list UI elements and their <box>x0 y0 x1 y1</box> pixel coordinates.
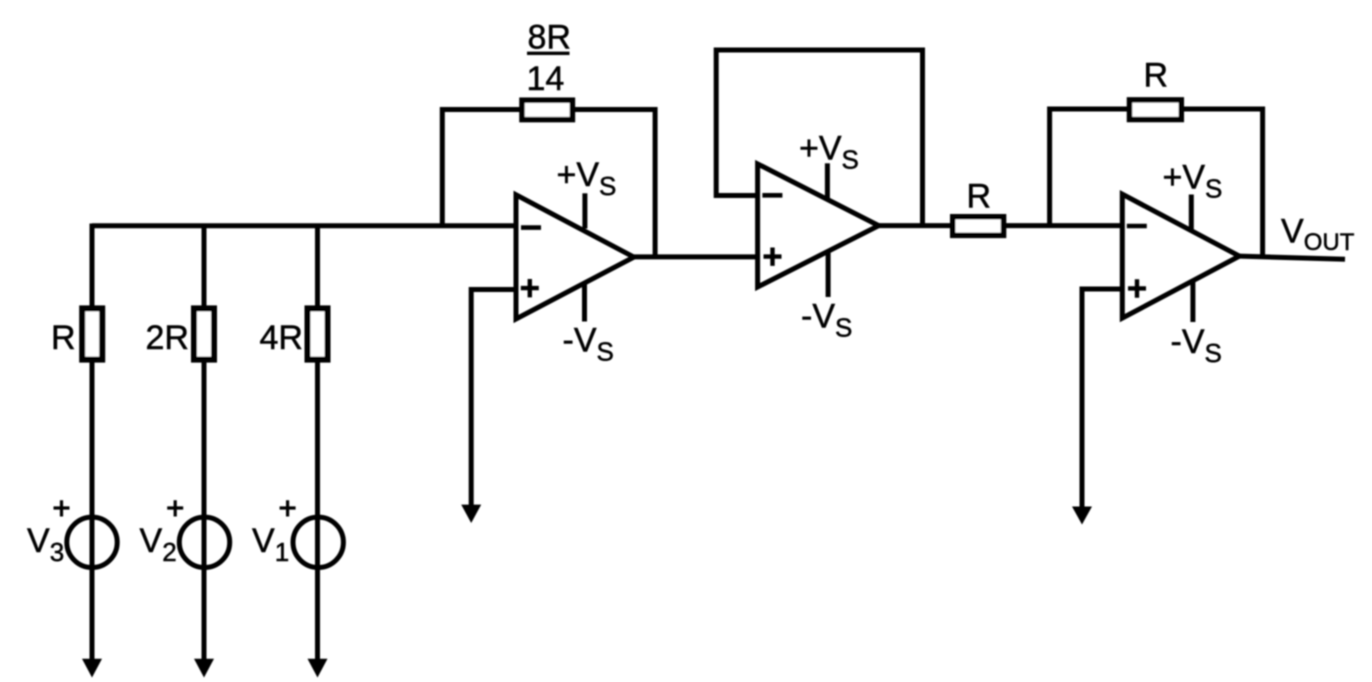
ground arrowhead V3 <box>82 659 102 678</box>
wire: op-amp2 feedback loop <box>716 50 922 226</box>
wire: summing bus <box>92 223 516 228</box>
svg-text:R: R <box>967 178 992 216</box>
op-amp2 plus pin mark <box>764 248 782 266</box>
wire: op-amp1 feedback loop <box>442 110 655 257</box>
op-amp U1 <box>516 195 634 319</box>
ground arrowhead op-amp1 input <box>461 505 481 523</box>
svg-text:-VS: -VS <box>1171 323 1222 368</box>
fraction bar 8R/14 <box>527 52 570 55</box>
wire: op-amp2 output to op-amp3 <box>879 223 1123 228</box>
svg-text:-VS: -VS <box>563 322 614 367</box>
svg-text:V3: V3 <box>27 522 64 567</box>
resistor R (branch 1) <box>82 308 102 359</box>
resistor 4R (branch 3) <box>308 308 328 359</box>
op-amp3 plus pin mark <box>1128 279 1146 297</box>
op-amp3 -Vs stub <box>1190 282 1195 323</box>
op-amp2 minus pin mark <box>762 193 782 198</box>
op-amp1 +Vs stub <box>582 193 587 228</box>
op-amp2 +Vs stub <box>825 163 830 199</box>
svg-text:14: 14 <box>527 60 565 98</box>
svg-text:V1: V1 <box>252 522 289 567</box>
op-amp3 minus pin mark <box>1127 224 1147 229</box>
wire: op-amp3 noninverting input <box>1082 289 1122 509</box>
svg-text:8R: 8R <box>528 19 571 57</box>
op-amp1 plus pin mark <box>521 279 539 297</box>
resistor R series <box>953 217 1004 236</box>
op-amp1 minus pin mark <box>521 225 541 230</box>
source V1 circle <box>293 517 343 567</box>
source V3 polarity plus <box>54 500 70 516</box>
svg-text:-VS: -VS <box>801 298 852 343</box>
svg-text:R: R <box>51 319 76 357</box>
resistor R feedback op-amp3 <box>1130 100 1182 120</box>
wire: branch V1 <box>315 224 320 662</box>
svg-text:R: R <box>1144 57 1169 95</box>
source V1 polarity plus <box>280 500 296 516</box>
resistor 8R/14 feedback <box>522 100 572 119</box>
op-amp U3 <box>1122 194 1239 318</box>
wire: branch V3 <box>90 224 95 662</box>
svg-text:2R: 2R <box>146 319 189 357</box>
ground arrowhead op-amp3 input <box>1072 507 1092 525</box>
svg-text:VOUT: VOUT <box>1281 213 1355 257</box>
resistor 2R (branch 2) <box>194 308 214 359</box>
source V2 polarity plus <box>167 500 183 516</box>
wire: op-amp3 output VOUT <box>1239 256 1345 259</box>
wire: op-amp3 feedback loop <box>1050 109 1263 257</box>
source V3 circle <box>67 517 117 567</box>
svg-text:4R: 4R <box>260 319 303 357</box>
wire: branch V2 <box>202 224 207 662</box>
op-amp U2 buffer <box>758 164 879 287</box>
ground arrowhead V1 <box>308 659 328 678</box>
wire: op-amp1 output to op-amp2 input <box>634 254 758 259</box>
op-amp2 -Vs stub <box>826 252 831 298</box>
wire: op-amp1 noninverting input <box>471 290 516 508</box>
ground arrowhead V2 <box>194 659 214 678</box>
op-amp3 +Vs stub <box>1189 195 1194 230</box>
source V2 circle <box>179 517 229 567</box>
svg-text:V2: V2 <box>140 522 177 567</box>
op-amp1 -Vs stub <box>582 282 587 322</box>
